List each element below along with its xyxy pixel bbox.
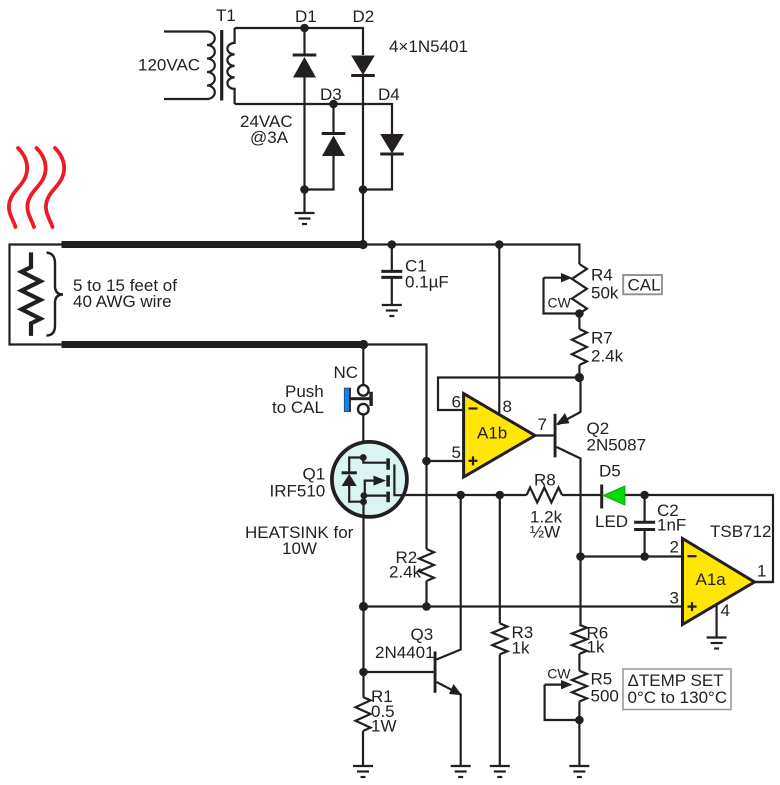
diode D1 bbox=[293, 55, 317, 190]
svg-text:6: 6 bbox=[452, 393, 461, 412]
wire feedback from A1a output bbox=[645, 495, 773, 582]
transformer T1 primary winding bbox=[164, 32, 215, 100]
switch S1 blue plunger bbox=[344, 388, 351, 412]
svg-text:CW: CW bbox=[547, 666, 571, 682]
svg-text:T1: T1 bbox=[216, 6, 236, 25]
node gate / Q3 collector bbox=[456, 491, 465, 500]
ground Q3 emitter bbox=[451, 766, 471, 777]
Q3 collector bbox=[437, 495, 461, 660]
svg-text:2: 2 bbox=[670, 538, 679, 557]
transformer T1 secondary winding bbox=[227, 28, 234, 104]
Q1 channel bars bbox=[386, 458, 390, 502]
resistor R6 bbox=[572, 557, 587, 671]
label box CAL bbox=[623, 275, 662, 294]
wire LED to feedback node bbox=[625, 494, 645, 496]
resistor R3 bbox=[492, 495, 507, 766]
node Q3 base junction bbox=[359, 668, 368, 677]
svg-text:A1b: A1b bbox=[477, 424, 507, 443]
wire bridge negative to ground bbox=[303, 190, 305, 214]
svg-text:2.4k: 2.4k bbox=[591, 346, 624, 365]
wire R7 bottom to node bbox=[578, 365, 580, 378]
resistor heater element (40 AWG wire) bbox=[22, 252, 41, 336]
Q1 source bar link bbox=[365, 495, 387, 497]
label box DELTA TEMP SET bbox=[623, 669, 731, 710]
svg-text:CW: CW bbox=[548, 294, 572, 310]
ground R5 bbox=[569, 766, 589, 777]
transistor Q3 base bar bbox=[434, 652, 437, 693]
transformer T1 core bbox=[220, 30, 223, 101]
svg-text:40 AWG wire: 40 AWG wire bbox=[73, 292, 172, 311]
svg-text:@3A: @3A bbox=[250, 128, 289, 147]
svg-text:0°C to 130°C: 0°C to 130°C bbox=[628, 688, 728, 707]
capacitor C1 bbox=[381, 245, 402, 306]
svg-text:10W: 10W bbox=[282, 539, 317, 558]
svg-text:R4: R4 bbox=[591, 265, 613, 284]
wire A1b output to Q2 base bbox=[535, 434, 554, 436]
wire bridge positive down to +V rail bbox=[362, 190, 364, 245]
node gate / R3 top bbox=[496, 491, 505, 500]
wire R1 to ground bbox=[362, 731, 364, 766]
potentiometer R4 bbox=[544, 264, 587, 314]
svg-text:D4: D4 bbox=[378, 85, 400, 104]
Q3 emitter with arrow bbox=[437, 682, 463, 766]
node R5 wiper bottom bbox=[575, 716, 584, 725]
wire A1b supply pin 8 bbox=[498, 245, 500, 415]
Q1 internal source dots bbox=[361, 492, 368, 499]
svg-text:R7: R7 bbox=[591, 328, 613, 347]
svg-text:3: 3 bbox=[670, 588, 679, 607]
LED D5 cathode bar bbox=[600, 485, 603, 509]
ground C1 bbox=[382, 305, 402, 316]
svg-text:Q3: Q3 bbox=[411, 625, 434, 644]
op-amp A1b bbox=[464, 394, 535, 477]
Q1 body diode bbox=[342, 473, 364, 502]
node heater bottom / switch junction bbox=[359, 340, 368, 349]
ground A1a pin4 bbox=[707, 638, 727, 649]
wire Q1 gate line to R8 bbox=[407, 494, 527, 496]
wire pin 2 to A1a bbox=[581, 555, 683, 557]
svg-text:2N4401: 2N4401 bbox=[375, 643, 435, 662]
brace for heater label bbox=[47, 253, 64, 336]
node R2 bottom on rail bbox=[422, 602, 431, 611]
node pin5 tap bbox=[422, 457, 431, 466]
node R7/Q2 emitter/feedback junction bbox=[575, 373, 584, 382]
wire R8 to LED D5 bbox=[562, 494, 602, 496]
wire pin 5 to A1b bbox=[427, 460, 464, 462]
svg-text:IRF510: IRF510 bbox=[270, 482, 326, 501]
potentiometer R5 bbox=[545, 671, 587, 766]
ground R1 bbox=[353, 766, 373, 777]
Q1 body diode branch top bbox=[349, 458, 363, 473]
node D5 / C2 / A1a feedback bbox=[640, 491, 649, 500]
diode D4 bbox=[363, 134, 404, 190]
svg-text:LED: LED bbox=[595, 512, 628, 531]
heat waves red squiggle 3 bbox=[46, 148, 64, 227]
svg-text:2.4k: 2.4k bbox=[389, 563, 422, 582]
node +V rail / heater top junction bbox=[358, 240, 367, 249]
node Q2 collector / R6 / pin2 bbox=[576, 552, 585, 561]
svg-text:TSB712: TSB712 bbox=[710, 522, 771, 541]
op-amp A1a bbox=[683, 539, 755, 625]
svg-text:D2: D2 bbox=[353, 7, 375, 26]
node A1b supply tap bbox=[495, 240, 504, 249]
resistor R1 bbox=[356, 697, 371, 731]
svg-text:7: 7 bbox=[538, 415, 547, 434]
wire heater loop thin box left bbox=[10, 245, 62, 345]
wire R2 bottom bbox=[425, 581, 427, 607]
svg-text:½W: ½W bbox=[530, 522, 560, 541]
svg-text:1nF: 1nF bbox=[657, 516, 686, 535]
heat waves red squiggle 2 bbox=[27, 148, 45, 227]
node D1 top junction bbox=[300, 24, 309, 33]
wire heater bottom thick bbox=[62, 341, 362, 348]
Q1 substrate arrow bbox=[365, 476, 386, 496]
wire Q1 source down to ground rail bbox=[362, 502, 364, 607]
svg-text:D1: D1 bbox=[295, 7, 317, 26]
node C1 tap bbox=[388, 240, 397, 249]
svg-text:500: 500 bbox=[591, 687, 619, 706]
resistor R8 bbox=[527, 488, 562, 503]
wire A1a pin 4 to ground bbox=[715, 605, 717, 638]
transistor Q2 base bar bbox=[554, 414, 557, 458]
svg-text:to CAL: to CAL bbox=[272, 398, 324, 417]
wire heater top thick bbox=[62, 241, 367, 248]
svg-text:2N5087: 2N5087 bbox=[587, 436, 647, 455]
wire secondary bottom AC to D3/D4 bbox=[235, 104, 392, 134]
wire Q3 base bbox=[364, 671, 434, 673]
resistor R2 bbox=[419, 549, 434, 581]
wire feedback to A1b pin6 bbox=[438, 378, 579, 411]
Q2 emitter with arrow bbox=[556, 378, 581, 425]
diode D2 bbox=[351, 56, 375, 190]
wire D1 top tap bbox=[303, 28, 305, 55]
svg-text:120VAC: 120VAC bbox=[138, 56, 200, 75]
svg-text:1k: 1k bbox=[587, 638, 605, 657]
diode D3 bbox=[305, 104, 346, 190]
svg-text:1k: 1k bbox=[512, 639, 530, 658]
capacitor C2 bbox=[634, 495, 655, 557]
ground bridge bbox=[295, 213, 315, 224]
svg-text:1: 1 bbox=[757, 561, 766, 580]
ground R3 bbox=[490, 766, 510, 777]
wire switch to Q1 drain bbox=[362, 415, 364, 458]
switch S1 pushbutton contacts bbox=[358, 385, 369, 414]
wire secondary top AC to D1/D2 bbox=[235, 28, 363, 55]
svg-text:CAL: CAL bbox=[628, 275, 661, 294]
node R4 bottom junction bbox=[575, 309, 584, 318]
Q2 collector bbox=[557, 447, 581, 557]
svg-text:50k: 50k bbox=[591, 283, 619, 302]
svg-text:5: 5 bbox=[452, 443, 461, 462]
node source / ground rail left bbox=[359, 602, 368, 611]
svg-text:NC: NC bbox=[334, 363, 359, 382]
svg-text:0.1µF: 0.1µF bbox=[405, 273, 449, 292]
wire A1a output bbox=[755, 581, 774, 583]
svg-text:4×1N5401: 4×1N5401 bbox=[389, 37, 468, 56]
svg-text:R8: R8 bbox=[534, 470, 556, 489]
wire R4 to R7 bbox=[578, 314, 580, 330]
LED D5 triangle bbox=[603, 486, 625, 505]
Q1 internal drain node dot bbox=[360, 454, 367, 461]
switch S1 shaft bbox=[349, 397, 370, 400]
Q1 internal drain link bbox=[363, 458, 386, 463]
svg-text:A1a: A1a bbox=[696, 570, 727, 589]
svg-text:4: 4 bbox=[721, 601, 730, 620]
wire Q1 source rail down to Q3 base / R1 bbox=[362, 607, 364, 698]
heat waves red squiggle 1 bbox=[9, 148, 27, 227]
wire ground rail (pin 3 line) bbox=[364, 605, 683, 607]
transistor Q1 MOSFET circle bbox=[332, 442, 407, 517]
svg-text:1W: 1W bbox=[371, 717, 397, 736]
resistor R7 bbox=[572, 329, 587, 365]
switch S1 actuator bar bbox=[369, 392, 372, 406]
node bridge negative junction bbox=[300, 185, 309, 194]
Q1 gate electrode bbox=[394, 464, 407, 495]
node D3 top junction bbox=[329, 100, 338, 109]
svg-text:D3: D3 bbox=[320, 85, 342, 104]
wire +V rail thin bbox=[366, 245, 579, 265]
svg-text:8: 8 bbox=[503, 397, 512, 416]
wire heater bottom to R2 branch bbox=[364, 345, 427, 550]
node bridge positive junction bbox=[359, 185, 368, 194]
wire switch top bbox=[362, 345, 364, 386]
node C2 bottom / pin2 bbox=[640, 552, 649, 561]
svg-text:D5: D5 bbox=[599, 462, 621, 481]
